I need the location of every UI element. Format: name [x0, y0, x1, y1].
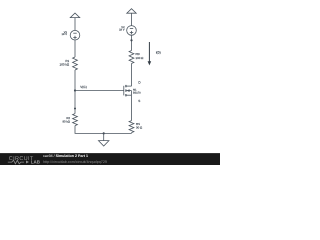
- power V+ symbol above V1: [70, 13, 79, 30]
- svg-text:http://circuitlab.com/circuit/: http://circuitlab.com/circuit/4nqudpq729: [43, 160, 107, 164]
- current annotation arrow I(D): [148, 42, 152, 65]
- resistor R2: [73, 114, 78, 126]
- wire R2 to bottom rail: [75, 126, 104, 134]
- label R2 and value 90 kOhm: [62, 116, 70, 124]
- resistor RS: [129, 121, 134, 133]
- wire node V(G) to R2: [74, 91, 76, 114]
- transistor M1 (BS170 NMOS): [124, 85, 132, 97]
- svg-text:90 kΩ: 90 kΩ: [62, 120, 69, 124]
- svg-text:100 kΩ: 100 kΩ: [60, 63, 70, 67]
- wire V1 to R1: [74, 40, 76, 57]
- wire V2 to RD: [131, 35, 133, 50]
- wire RD to M1 drain: [131, 64, 133, 87]
- label V2 and value 18 V: [119, 26, 125, 31]
- svg-text:18 V: 18 V: [119, 29, 125, 32]
- power V+ symbol above V2: [127, 9, 136, 26]
- CircuitLab logo: [8, 156, 41, 165]
- resistor RD: [129, 51, 134, 64]
- wire RS to bottom rail: [131, 132, 133, 135]
- wire M1 source to RS: [131, 95, 133, 120]
- svg-text:18 V: 18 V: [61, 33, 67, 36]
- label M1 and part BS170: [133, 89, 141, 95]
- junction node V(G): [74, 89, 76, 91]
- wire R1 to node V(G): [74, 70, 76, 91]
- svg-text:30 Ω: 30 Ω: [136, 126, 143, 130]
- svg-text:cac94 / Simulation 2 Part 1: cac94 / Simulation 2 Part 1: [43, 154, 88, 158]
- svg-text:LAB: LAB: [31, 160, 41, 165]
- svg-text:S: S: [138, 99, 140, 103]
- label RD and value 100 Ohm: [136, 52, 145, 60]
- svg-text:BS170: BS170: [133, 92, 141, 95]
- ground: [99, 133, 109, 146]
- junction ground node: [103, 132, 105, 134]
- svg-text:100 Ω: 100 Ω: [136, 56, 145, 60]
- label V1 and value 18 V: [61, 31, 67, 36]
- label R1 and value 100 kOhm: [60, 59, 70, 67]
- junction dot below V2: [130, 39, 132, 41]
- svg-text:I(D): I(D): [156, 51, 161, 55]
- svg-text:V(G): V(G): [80, 85, 87, 89]
- resistor R1: [73, 57, 78, 70]
- voltage source V1: [70, 30, 80, 40]
- label RS and value 30 Ohm: [136, 122, 143, 130]
- voltage source V2: [127, 26, 137, 36]
- wire bottom rail right: ground to RS: [104, 132, 132, 134]
- wire gate: node V(G) to M1 gate: [75, 90, 124, 92]
- terminal dot R2 top: [74, 108, 76, 110]
- footer bar: [0, 153, 220, 165]
